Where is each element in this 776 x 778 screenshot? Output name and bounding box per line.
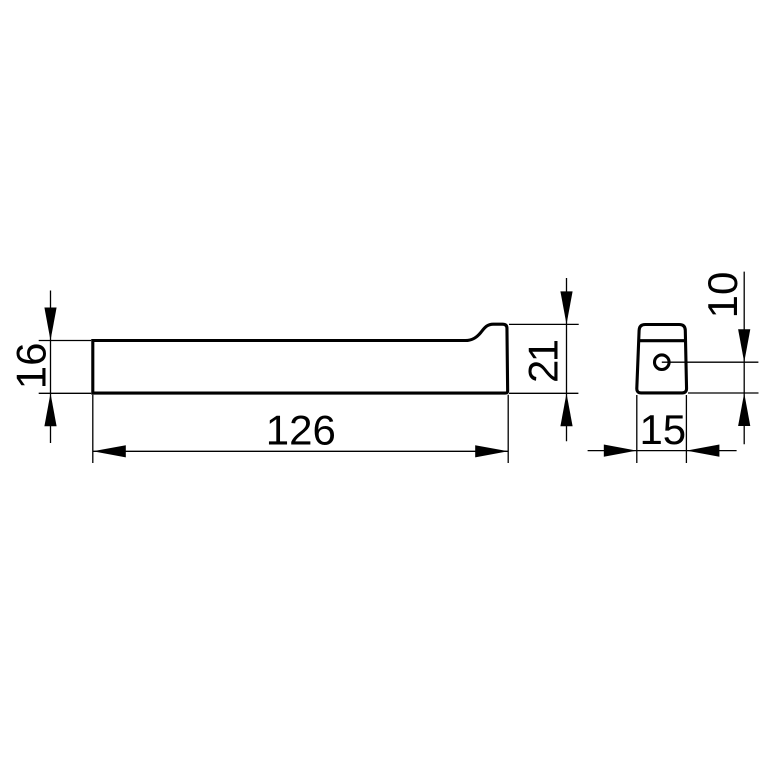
dimension 15: label — [639, 406, 686, 453]
end-view step line — [639, 339, 686, 342]
end-view block outline — [637, 325, 687, 393]
dimension 21: extension line bottom — [509, 392, 578, 394]
dimension 126: arrow left — [93, 445, 126, 457]
dimension 10: extension line center (hole axis) — [662, 361, 759, 363]
dimension 16: label — [8, 343, 55, 390]
dimension 126: label — [266, 407, 336, 454]
dimension 10: label — [699, 272, 746, 319]
svg-text:126: 126 — [266, 407, 336, 454]
dimension 15: arrow pointing right — [604, 445, 637, 457]
dimension 21: label — [520, 340, 567, 383]
dimension 16: arrow down — [44, 308, 56, 341]
dimension 16: dimension line — [50, 291, 52, 444]
dimension 21: dimension line — [566, 278, 568, 441]
end-view hole — [655, 355, 670, 370]
dimension 15: arrow pointing left — [686, 445, 719, 457]
dimension 126: extension line left — [92, 395, 94, 463]
svg-text:16: 16 — [8, 343, 55, 390]
dimension 15: extension line left — [636, 395, 638, 463]
dimension 16: arrow up — [44, 393, 56, 426]
dimension 10: arrow up — [738, 393, 750, 426]
side-view bar profile — [93, 324, 508, 393]
dimension 21: extension line top — [509, 323, 579, 325]
svg-text:15: 15 — [639, 406, 686, 453]
dimension 10: extension line bottom — [688, 392, 759, 394]
dimension 16: extension line bottom — [39, 392, 91, 394]
dimension 21: arrow down — [560, 291, 572, 324]
dimension 15: extension line right — [685, 395, 687, 463]
dimension 10: dimension line — [743, 272, 745, 445]
dimension 126: extension line right — [507, 395, 509, 463]
dimension 126: arrow right — [475, 445, 508, 457]
dimension 126: dimension line — [93, 450, 508, 452]
dimension 15: dimension line — [588, 450, 737, 452]
dimension 21: arrow up — [560, 393, 572, 426]
dimension 16: extension line top — [39, 340, 91, 342]
svg-text:10: 10 — [699, 272, 746, 319]
svg-text:21: 21 — [520, 340, 567, 383]
dimension 10: arrow down — [738, 329, 750, 362]
